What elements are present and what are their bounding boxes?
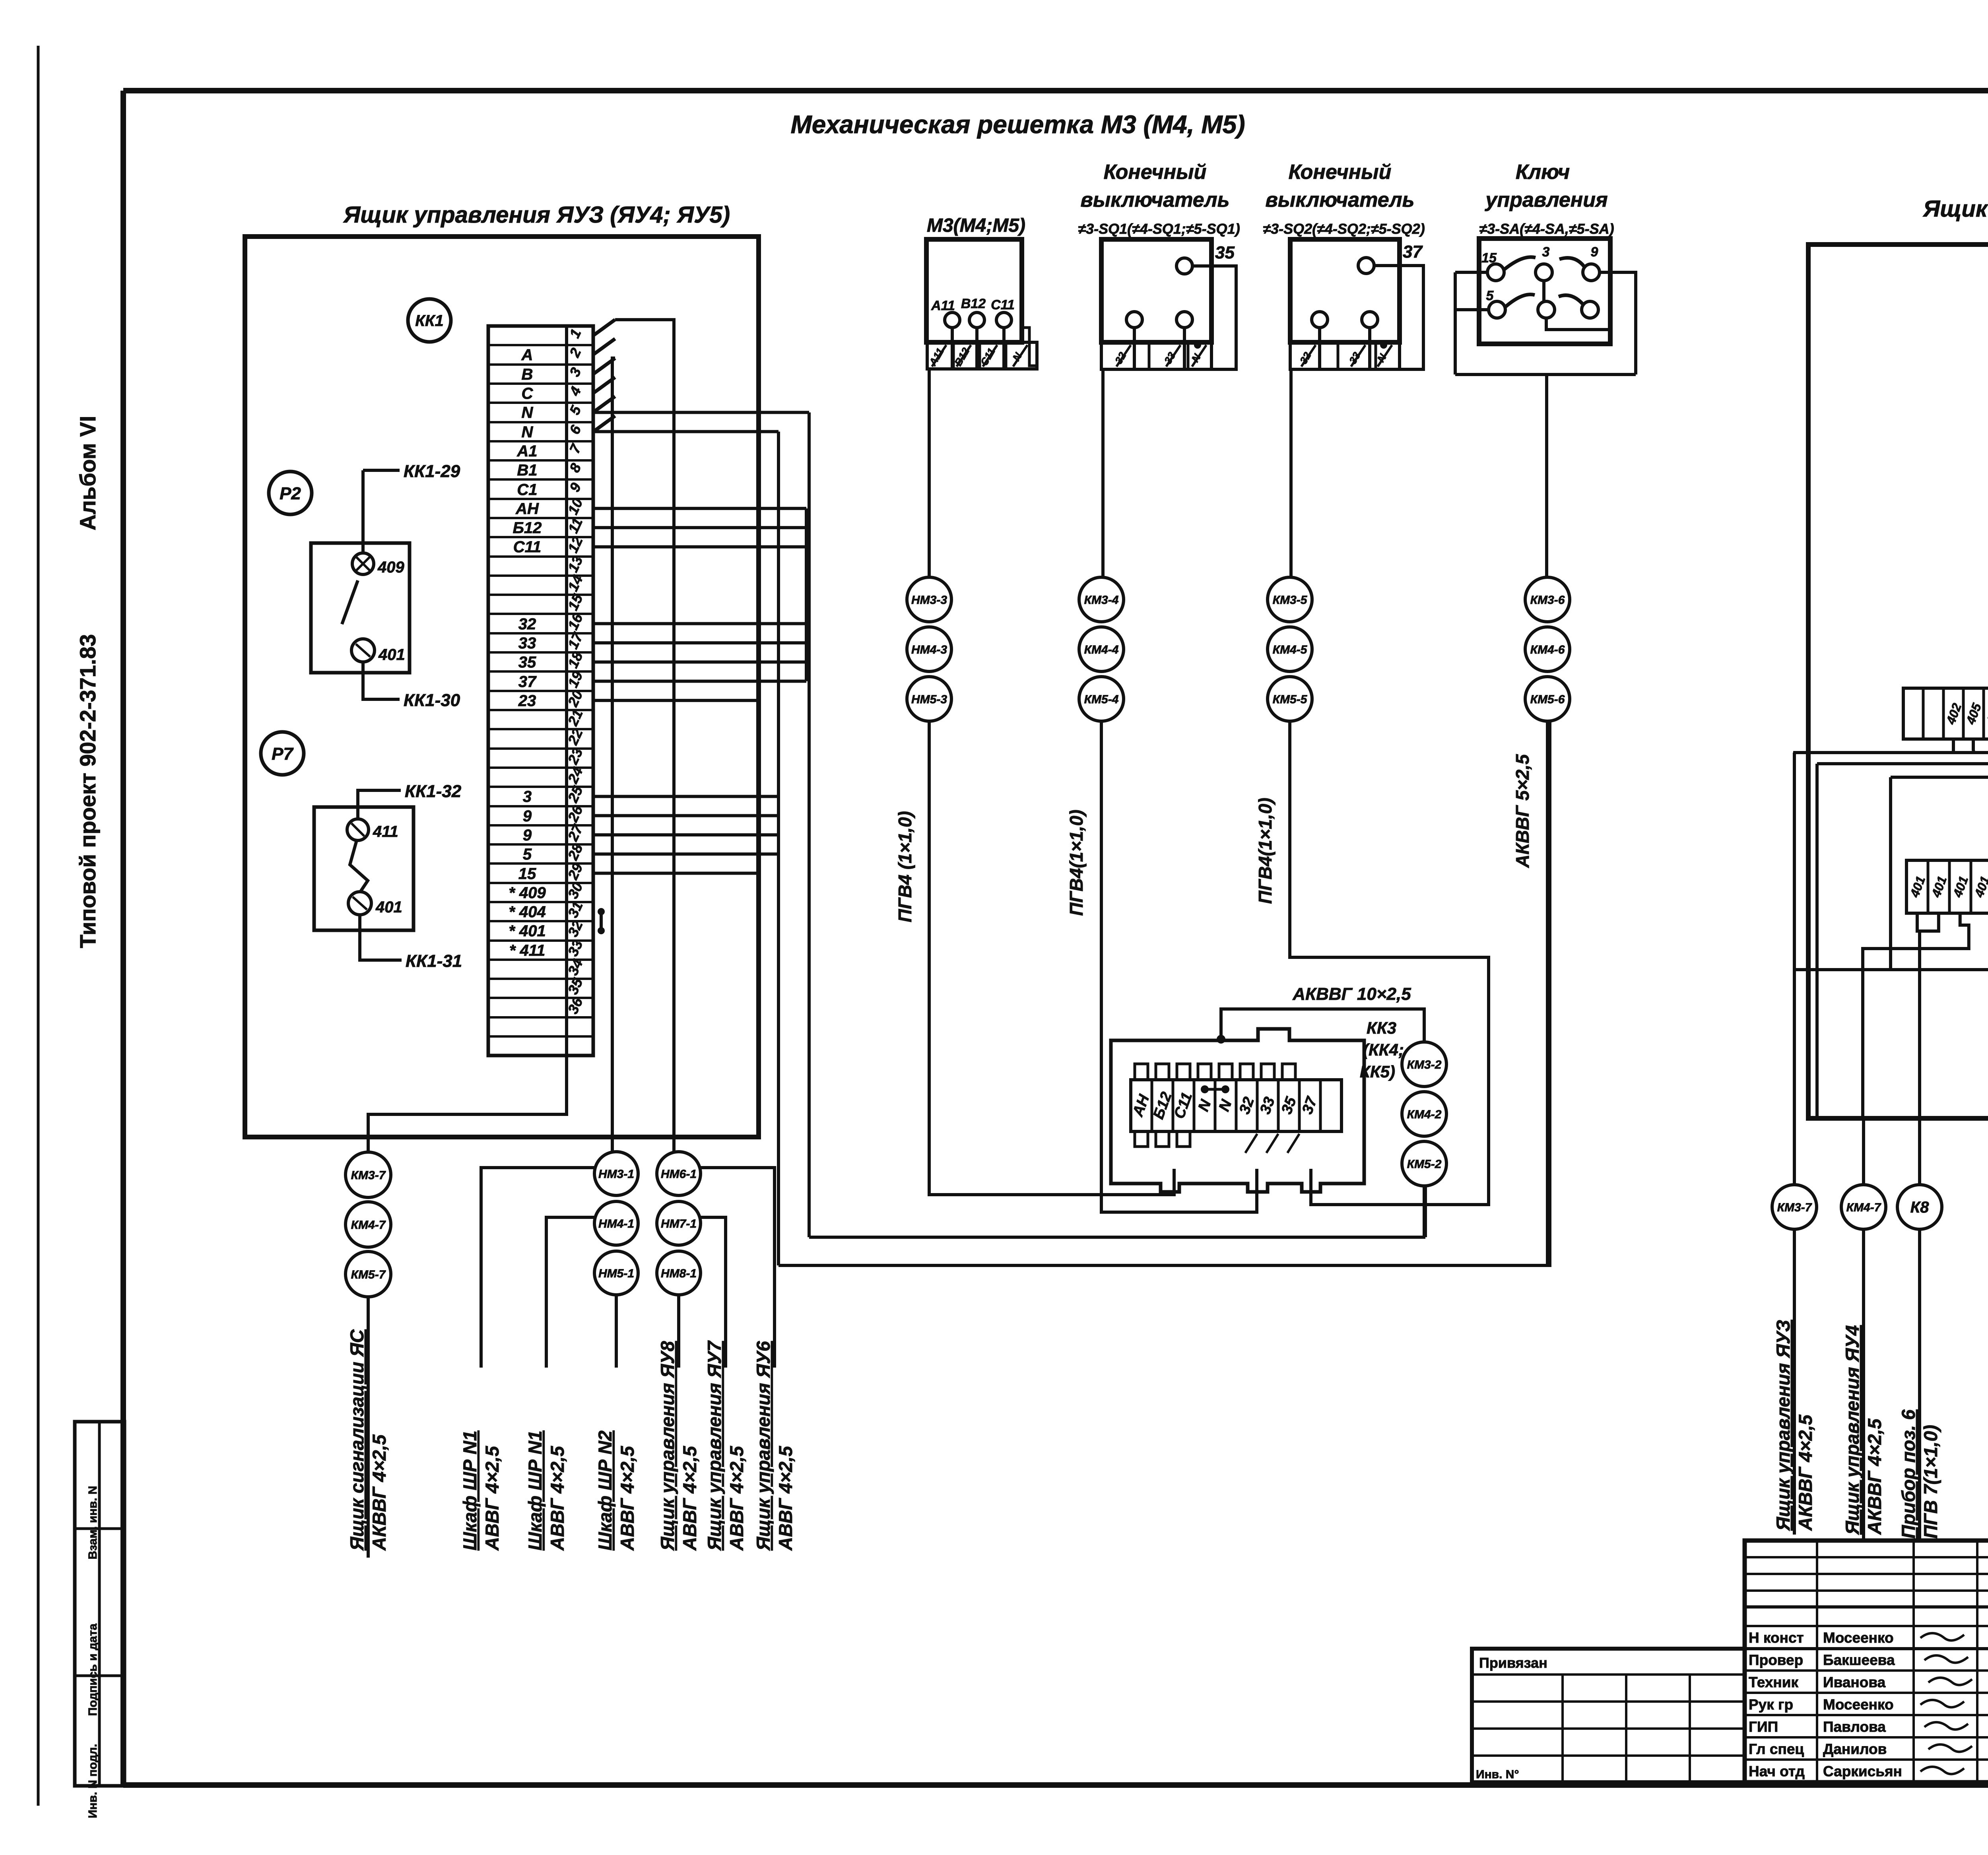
cable loop AKVVG10 [1276,1009,1424,1042]
svg-text:КК1-32: КК1-32 [405,782,462,801]
SQ1 bottom hatch row [1101,342,1211,369]
SQ1 terminal 35 [1176,258,1192,274]
svg-text:Шкаф ШР N2: Шкаф ШР N2 [594,1430,615,1550]
device circle KK1 [408,299,451,342]
svg-text:АВВГ 4×2,5: АВВГ 4×2,5 [617,1446,638,1551]
cable mark KM5-5 [1268,677,1312,721]
svg-text:КК3: КК3 [1367,1019,1396,1037]
cable mark KM3-7 right [1772,1185,1817,1229]
wire KK1-30 [363,662,400,699]
svg-text:411: 411 [373,823,398,840]
svg-text:КМ3-5: КМ3-5 [1273,594,1308,607]
wire NM5-1 down [615,1295,618,1368]
svg-text:* 411: * 411 [509,942,545,959]
wire row 28 [593,852,779,856]
left stamp divider [98,1422,101,1786]
cable mark KM5-6 [1525,677,1570,721]
svg-text:В1: В1 [517,462,537,479]
svg-text:35: 35 [1215,243,1235,262]
terminal strip K1 [1903,688,1988,739]
svg-text:С11: С11 [513,538,541,556]
cable mark NM4-3 [907,627,951,671]
svg-text:Техник: Техник [1749,1674,1799,1690]
svg-text:* 401: * 401 [509,922,546,940]
SQ2 bottom terminals [1312,312,1328,328]
wire N row6 riser down [777,432,780,1265]
svg-text:АН: АН [515,500,539,518]
wire row 17 [593,641,806,644]
device 401 lower P7 [348,892,371,915]
svg-text:N: N [522,404,534,421]
connector terminal row [1131,1080,1342,1131]
cable mark NM6-1 [657,1152,701,1195]
bus H5 [779,721,1550,1265]
svg-text:НМ3-1: НМ3-1 [598,1168,634,1181]
wire SQ2 37 loop [1374,266,1423,369]
bus from K1 2-409/2-411 [1891,750,1988,777]
svg-text:Б12: Б12 [513,519,542,537]
wire col1 to connector [929,721,1174,1195]
wire KK1-29 [361,470,365,553]
wire row 25 [593,795,779,798]
svg-text:КМ4-7: КМ4-7 [1846,1201,1881,1214]
wire row 19 [593,680,806,683]
svg-text:Конечный: Конечный [1104,161,1207,184]
svg-text:Прибор поз. 6: Прибор поз. 6 [1898,1409,1919,1539]
svg-text:В12: В12 [961,296,986,311]
svg-text:Данилов: Данилов [1823,1741,1887,1757]
svg-text:НМ8-1: НМ8-1 [661,1267,697,1280]
wire row 18 [593,660,806,664]
left margin stamp box [75,1422,124,1786]
SA left wire 1 [1455,271,1487,274]
cable mark NM7-1 [657,1201,701,1245]
svg-text:АВВГ 4×2,5: АВВГ 4×2,5 [775,1446,796,1551]
lamp 409 [352,553,374,574]
riser KM4-7 right [1862,1118,1865,1185]
wire NM6-1 to YAU6 [701,1168,775,1368]
strip top take-off hatches [593,320,615,336]
wire col3 loop to connector [1290,721,1489,1205]
svg-text:А: А [521,346,533,364]
svg-text:КМ3-2: КМ3-2 [1407,1058,1442,1071]
bus from K1 1-409/1-411 [1817,750,1988,764]
svg-text:Ящик сигнализации ЯС: Ящик сигнализации ЯС [346,1329,367,1551]
SA inner link [1546,318,1610,330]
wire KM5-2 down [1423,1186,1426,1237]
svg-text:КМ3-4: КМ3-4 [1084,594,1119,607]
svg-text:Шкаф ШР N1: Шкаф ШР N1 [524,1430,546,1550]
svg-text:Инв. N°: Инв. N° [1476,1768,1519,1781]
motor terminals A11 B12 C11 [945,312,960,328]
wire row 6 [593,430,779,433]
cable mark NM4-1 [594,1201,638,1245]
connector lower hatch marks [1245,1134,1257,1153]
svg-text:Ящик управления ЯУ8: Ящик управления ЯУ8 [657,1341,678,1551]
left stamp divider 3 [75,1675,124,1677]
SQ2 bottom hatch row [1290,342,1400,369]
svg-text:ПГВ4(1×1,0): ПГВ4(1×1,0) [1066,809,1087,916]
riser to bus 2439 [1889,777,1892,970]
svg-text:АКВВГ 4×2,5: АКВВГ 4×2,5 [1864,1418,1885,1535]
control key SA box [1479,239,1610,344]
M3 bottom terminal row with hatches [927,342,1037,369]
svg-text:А11: А11 [931,298,955,313]
cable mark NM3-1 [594,1152,638,1195]
wire riser to NM6-1 [615,320,674,1152]
svg-text:НМ6-1: НМ6-1 [661,1168,697,1181]
svg-text:АКВВГ 4×2,5: АКВВГ 4×2,5 [369,1434,390,1551]
svg-text:5: 5 [1486,288,1494,303]
strip KK1 link bar rows 31-32 [600,912,603,931]
svg-text:НМ3-3: НМ3-3 [911,594,947,607]
SA right loop [1600,272,1636,374]
svg-text:НМ5-3: НМ5-3 [911,693,947,706]
wire col4 down [1546,721,1549,1265]
svg-text:Типовой проект 902-2-371.83: Типовой проект 902-2-371.83 [75,634,100,948]
svg-text:АВВГ 4×2,5: АВВГ 4×2,5 [481,1446,503,1551]
svg-text:Мосеенко: Мосеенко [1823,1630,1894,1646]
wire NM8-1 down [677,1295,680,1368]
svg-text:выключатель: выключатель [1080,188,1229,212]
title block main [1745,1541,1988,1782]
tb divider 2 [1745,1647,1988,1650]
wire NM4-1 to cab ShR1b [546,1217,594,1368]
svg-text:А1: А1 [516,442,537,460]
relay designator P2 [269,472,312,514]
wire riser to NM3-1 [612,358,615,1152]
SA left drop [1454,272,1457,374]
left trim line [37,46,40,1806]
svg-text:Провер: Провер [1749,1652,1803,1668]
cable mark KM3-7 left [346,1152,391,1197]
cable mark NM8-1 [657,1251,701,1295]
cable tail [1918,1229,1921,1543]
cable mark KM4-7 left [346,1202,391,1247]
device 401 lower [351,639,375,662]
svg-text:КМ4-7: КМ4-7 [351,1219,386,1232]
frame top border [123,88,1988,93]
riser to KM3-7 right [1793,753,1796,1185]
svg-text:АВВГ 4×2,5: АВВГ 4×2,5 [726,1446,747,1551]
connector stubs below [1135,1131,1148,1147]
wire M3 down to NM3-3 [928,369,931,577]
svg-text:выключатель: выключатель [1265,188,1414,212]
tb divider 1 [1745,1605,1988,1609]
wire row 26 [593,814,779,817]
svg-text:КМ4-5: КМ4-5 [1273,643,1308,656]
svg-text:АКВВГ 5×2,5: АКВВГ 5×2,5 [1512,754,1533,868]
cable mark K8 [1897,1185,1942,1229]
svg-text:* 404: * 404 [509,903,546,921]
svg-text:Ключ: Ключ [1516,161,1570,184]
svg-text:15: 15 [1481,250,1497,266]
SA contact blades [1504,257,1536,270]
connector N jumper dots [1201,1085,1209,1093]
svg-text:АКВВГ 10×2,5: АКВВГ 10×2,5 [1292,984,1411,1004]
svg-text:≠3-SQ2(≠4-SQ2;≠5-SQ2): ≠3-SQ2(≠4-SQ2;≠5-SQ2) [1263,221,1425,237]
wire row 16 [593,622,806,625]
wire SQ1 down to KM3-4 [1101,369,1105,577]
SA bottom wire [1455,373,1636,376]
wire row 12 [593,545,806,548]
wire KK1-31 [360,915,402,960]
svg-text:* 409: * 409 [509,884,546,902]
wire row 29 [593,872,761,875]
svg-text:КМ3-6: КМ3-6 [1530,594,1565,607]
wire N to cable loop [1221,1009,1276,1038]
cable mark KM3-6 [1525,577,1570,622]
svg-text:КМ5-7: КМ5-7 [351,1268,386,1281]
svg-text:5: 5 [523,846,532,863]
svg-text:НМ4-3: НМ4-3 [911,643,947,656]
svg-text:Механическая решетка М3: Механическая решетка М3 (М4, М5) [790,110,1245,139]
svg-text:КМ3-7: КМ3-7 [1777,1201,1812,1214]
svg-text:Гл спец: Гл спец [1749,1741,1804,1757]
cable mark KM4-4 [1079,627,1124,671]
svg-text:В: В [522,366,533,383]
svg-text:Ящик управления ЯУЗ: Ящик управления ЯУЗ [1773,1320,1794,1531]
svg-text:КМ5-4: КМ5-4 [1084,693,1119,706]
svg-text:9: 9 [523,827,532,844]
svg-text:Шкаф ШР N1: Шкаф ШР N1 [459,1430,480,1550]
svg-text:Саркисьян: Саркисьян [1823,1763,1902,1779]
cable mark NM5-1 [594,1251,638,1295]
svg-text:Ящик управления ЯУ4: Ящик управления ЯУ4 [1842,1325,1863,1535]
cable mark NM3-3 [907,577,951,622]
M3 N-terminal jog [1022,328,1037,366]
cable mark KM4-5 [1268,627,1312,671]
motor box M3(M4;M5) [926,239,1022,342]
privyazan table [1472,1649,1745,1782]
svg-text:33: 33 [518,635,536,652]
cable mark NM5-3 [907,677,951,721]
cable tail [1793,1229,1796,1535]
svg-text:9: 9 [523,807,532,825]
riser to box bottom [1815,764,1819,1118]
svg-text:КМ5-6: КМ5-6 [1530,693,1565,706]
svg-text:Ящик управления ЯУЗ (ЯУ4; ЯУ5): Ящик управления ЯУЗ (ЯУ4; ЯУ5) [343,202,730,228]
wire K2 c3 to KM4-7 [1863,913,1969,1118]
wire NM3-1 to cab ShR1 [481,1168,594,1368]
svg-text:С11: С11 [991,297,1015,312]
terminal strip KK1 [488,326,593,1056]
svg-text:КМ5-5: КМ5-5 [1273,693,1308,706]
frame left border [120,91,126,1786]
svg-text:3: 3 [1542,244,1550,260]
svg-text:401: 401 [378,646,405,664]
cable mark KM4-7 right [1841,1185,1886,1229]
control box YAU3 outline [245,237,759,1137]
svg-text:15: 15 [518,865,536,883]
svg-text:Р7: Р7 [272,744,294,764]
thermal relay connector KK3 body [1111,1029,1364,1192]
svg-text:Рук гр: Рук гр [1749,1696,1793,1713]
svg-text:Иванова: Иванова [1823,1674,1886,1690]
contact blade P2 [342,580,358,624]
svg-text:Нач отд: Нач отд [1749,1763,1805,1779]
svg-text:9: 9 [1591,244,1598,260]
svg-text:НМ7-1: НМ7-1 [661,1217,697,1230]
relay P7 contact box [314,807,414,930]
svg-text:Ящик сигнализации ЯС: Ящик сигнализации ЯС [1922,196,1988,222]
svg-text:Павлова: Павлова [1823,1719,1886,1735]
svg-text:Ящик управления ЯУ7: Ящик управления ЯУ7 [704,1340,725,1551]
svg-text:37: 37 [1403,242,1423,262]
wire N row5 riser down [808,412,811,1237]
svg-text:С1: С1 [517,481,537,499]
wire row 5 [593,411,809,414]
wire row 10 [593,507,806,510]
wire NM7-1 to YAU7 [701,1217,726,1368]
cable mark KM5-4 [1079,677,1124,721]
cable mark KM5-7 left [346,1252,391,1297]
cable mark KM3-4 [1079,577,1124,622]
signal box YAS outline [1808,244,1988,1118]
svg-text:Альбом VI: Альбом VI [75,416,100,530]
cable mark KM4-6 [1525,627,1570,671]
contact blade P7 [350,840,368,893]
svg-text:КМ3-7: КМ3-7 [351,1169,386,1182]
wire KK1-32 [358,790,401,819]
svg-text:Конечный: Конечный [1289,161,1392,184]
SQ1 bottom terminals [1126,312,1142,328]
svg-text:НМ5-1: НМ5-1 [598,1267,634,1280]
svg-text:С: С [522,385,534,402]
bus 2439 [1794,968,1988,971]
terminal strip K2 [1906,860,1988,913]
svg-text:КК5): КК5) [1360,1062,1395,1081]
wire SQ2 down to KM3-5 [1289,369,1293,577]
relay designator P7 [261,732,304,775]
svg-text:3: 3 [523,788,532,805]
SA contacts row 1 [1487,264,1504,281]
limit switch SQ1 box [1101,239,1211,342]
svg-text:Привязан: Привязан [1479,1655,1547,1671]
svg-text:Взам. инв. N: Взам. инв. N [86,1486,99,1559]
svg-text:32: 32 [518,615,536,633]
wire row 20 [593,699,761,702]
riser K8 left [1918,931,1921,1185]
svg-text:ГИП: ГИП [1749,1719,1778,1735]
svg-text:К8: К8 [1910,1199,1930,1216]
svg-text:(КК4;: (КК4; [1363,1040,1404,1059]
svg-text:АВВГ 4×2,5: АВВГ 4×2,5 [679,1446,700,1551]
cable mark KM3-5 [1268,577,1312,622]
wire row 27 [593,833,779,836]
svg-text:401: 401 [375,898,402,916]
wire strip bottom to KM3-7 [368,1056,567,1152]
svg-text:N: N [522,423,534,441]
cable mark KM5-2 [1402,1141,1446,1186]
K1 stubs below [1952,739,1955,750]
svg-text:НМ4-1: НМ4-1 [598,1217,634,1230]
svg-text:Ящик управления ЯУ6: Ящик управления ЯУ6 [753,1341,774,1551]
svg-text:ПГВ 7(1×1,0): ПГВ 7(1×1,0) [1920,1425,1941,1539]
cable mark KM3-2 [1402,1042,1446,1087]
cable tail [1862,1229,1865,1539]
svg-text:Мосеенко: Мосеенко [1823,1696,1894,1713]
svg-text:КК1-30: КК1-30 [404,691,460,710]
svg-text:КМ4-2: КМ4-2 [1407,1108,1442,1121]
SA center link [1542,281,1545,301]
svg-text:АВВГ 4×2,5: АВВГ 4×2,5 [547,1446,568,1551]
frame bottom border [123,1782,1988,1788]
svg-text:Инв. N подл.: Инв. N подл. [86,1744,99,1818]
SQ2 terminal 37 [1358,258,1374,274]
bridge K2 1-2 [1917,913,1939,931]
SA left wire 2 [1455,308,1489,311]
svg-text:Н конст: Н конст [1749,1630,1804,1646]
svg-text:управления: управления [1484,188,1607,212]
svg-text:КМ5-2: КМ5-2 [1407,1158,1442,1171]
relay P2 contact box [311,543,410,673]
cable tail KM5-7 [367,1297,370,1558]
wire row 11 [593,526,806,529]
svg-text:409: 409 [377,559,404,576]
svg-text:КК1-29: КК1-29 [404,462,460,481]
svg-text:≠3-SQ1(≠4-SQ1;≠5-SQ1): ≠3-SQ1(≠4-SQ1;≠5-SQ1) [1078,221,1240,237]
wire SQ1 35 loop [1192,266,1236,369]
svg-text:КК1: КК1 [415,312,443,330]
svg-text:Подпись и дата: Подпись и дата [86,1623,99,1716]
svg-text:ПГВ4(1×1,0): ПГВ4(1×1,0) [1255,797,1276,904]
svg-text:АКВВГ 4×2,5: АКВВГ 4×2,5 [1795,1415,1816,1531]
wire col2 to connector [1101,721,1257,1212]
bus from K1 402-407 [1793,750,1988,753]
left stamp divider 2 [75,1527,124,1530]
svg-text:≠3-SA(≠4-SA,≠5-SA): ≠3-SA(≠4-SA,≠5-SA) [1479,221,1614,237]
svg-text:КМ4-6: КМ4-6 [1530,643,1565,656]
svg-text:КМ4-4: КМ4-4 [1084,643,1119,656]
contact 411 [347,819,369,840]
svg-text:ПГВ4 (1×1,0): ПГВ4 (1×1,0) [895,811,915,922]
wire bundle riser [805,508,808,681]
limit switch SQ2 box [1290,239,1400,342]
wire SA down to KM3-6 [1545,374,1548,577]
bus H4 [809,1236,1425,1239]
svg-text:КК1-31: КК1-31 [406,951,462,971]
cable mark KM4-2 [1402,1092,1446,1136]
svg-text:37: 37 [518,673,537,691]
svg-text:М3(М4;М5): М3(М4;М5) [927,215,1025,236]
svg-text:Р2: Р2 [280,484,301,503]
svg-text:Бакшеева: Бакшеева [1823,1652,1895,1668]
svg-text:35: 35 [518,654,536,671]
connector stubs above [1135,1064,1148,1080]
svg-text:23: 23 [518,692,536,710]
